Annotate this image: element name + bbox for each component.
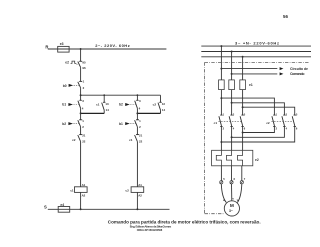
svg-text:c1: c1 bbox=[70, 188, 74, 192]
svg-text:Comando para partida direta de: Comando para partida direta de motor elé… bbox=[108, 219, 261, 224]
svg-text:v: v bbox=[232, 197, 234, 200]
svg-text:6: 6 bbox=[234, 177, 236, 181]
fuse e1 pole 3 bbox=[240, 80, 246, 90]
svg-text:c2: c2 bbox=[266, 121, 270, 125]
wire bbox=[80, 89, 82, 96]
svg-text:21: 21 bbox=[82, 134, 86, 138]
pushbutton b0 NC 1-2 bbox=[78, 81, 82, 88]
motor lead w bbox=[237, 184, 241, 203]
terminal 7 bbox=[240, 181, 243, 184]
node branch junction bbox=[80, 94, 82, 96]
svg-text:4: 4 bbox=[82, 107, 84, 111]
node control feed S bbox=[231, 73, 233, 75]
svg-text:14: 14 bbox=[162, 108, 166, 112]
node + wire branch to c2 pole 1 bbox=[220, 97, 222, 99]
svg-text:5: 5 bbox=[244, 112, 246, 116]
svg-text:1: 1 bbox=[223, 112, 225, 116]
svg-text:3: 3 bbox=[139, 99, 141, 103]
svg-text:3~ +N- 220V-60Hz: 3~ +N- 220V-60Hz bbox=[235, 40, 279, 45]
overload heater 3 bbox=[238, 150, 243, 166]
svg-text:96: 96 bbox=[82, 66, 86, 70]
fuse e1 pole 1 bbox=[219, 80, 225, 90]
node junction top bbox=[80, 48, 82, 50]
pushbutton b1 NO 3-4 bbox=[80, 95, 82, 100]
wire c1 outputs down to overload bbox=[220, 126, 222, 150]
svg-text:1: 1 bbox=[83, 79, 85, 83]
svg-text:1: 1 bbox=[276, 112, 278, 116]
coil c1 bbox=[75, 187, 88, 193]
svg-text:1: 1 bbox=[82, 119, 84, 123]
contact c2 NC 21-22 (interlock branch 1) bbox=[78, 135, 82, 187]
crossover wire c2 pole2 to phase S leg bbox=[231, 136, 233, 138]
panel boundary dash-dot frame bbox=[205, 62, 309, 213]
motor M1 bbox=[224, 201, 239, 216]
svg-text:22: 22 bbox=[139, 140, 143, 144]
pushbutton b2 NC 1-2 (branch 1) bbox=[78, 120, 82, 135]
node phase T tap bbox=[242, 56, 244, 58]
wire bottom control line bbox=[48, 208, 170, 210]
motor lead u bbox=[221, 184, 226, 203]
svg-text:2~- 220V- 60Hz: 2~- 220V- 60Hz bbox=[95, 43, 130, 48]
svg-text:b1: b1 bbox=[119, 122, 123, 126]
c1 linkage bbox=[218, 120, 241, 122]
svg-text:21: 21 bbox=[139, 134, 143, 138]
svg-text:4: 4 bbox=[233, 126, 235, 130]
node control feed R bbox=[220, 68, 222, 70]
svg-text:S: S bbox=[44, 205, 47, 210]
pushbutton b2 NO 3-4 (branch 2) bbox=[136, 95, 138, 100]
contact c1 13-14 (seal-in) bbox=[103, 95, 105, 102]
svg-text:Circuito de: Circuito de bbox=[290, 67, 308, 71]
node phase S tap bbox=[231, 51, 233, 53]
overload relay e2 box bbox=[212, 150, 253, 166]
svg-text:b1: b1 bbox=[62, 103, 66, 107]
wire control feed arrow 2 bbox=[232, 73, 278, 75]
svg-text:e3: e3 bbox=[60, 42, 64, 46]
svg-text:2: 2 bbox=[276, 126, 278, 130]
crossover wire c2 pole1 to phase T leg bbox=[242, 132, 244, 134]
node + wire branch to c2 pole 2 bbox=[231, 102, 233, 104]
node bbox=[103, 94, 105, 96]
terminal 6 bbox=[230, 181, 233, 184]
svg-text:4: 4 bbox=[286, 126, 288, 130]
wire phase R drop bbox=[220, 46, 222, 80]
svg-text:3: 3 bbox=[233, 112, 235, 116]
contactor c2 pole contacts bbox=[272, 115, 296, 126]
bus line S bbox=[201, 51, 311, 53]
svg-text:6: 6 bbox=[244, 126, 246, 130]
overload heater 1 bbox=[216, 150, 221, 166]
svg-text:c1: c1 bbox=[129, 138, 133, 142]
svg-text:13: 13 bbox=[105, 102, 109, 106]
svg-text:5: 5 bbox=[296, 112, 298, 116]
svg-text:6: 6 bbox=[296, 126, 298, 130]
svg-text:e2: e2 bbox=[65, 60, 69, 64]
fuse e4 bbox=[58, 207, 69, 213]
node phase R tap bbox=[220, 45, 222, 47]
svg-text:2: 2 bbox=[83, 86, 85, 90]
crossover wire c2 pole3 to phase R leg bbox=[220, 141, 222, 143]
overload heater 2 bbox=[227, 150, 232, 166]
svg-text:7: 7 bbox=[244, 177, 246, 181]
fuse e1 pole 2 bbox=[229, 80, 235, 90]
svg-text:e2: e2 bbox=[255, 158, 259, 162]
e2 trip symbol bbox=[71, 61, 77, 63]
contact c2 13-14 (seal-in branch 2) bbox=[160, 95, 162, 102]
bus line T bbox=[201, 56, 311, 58]
svg-text:A2: A2 bbox=[138, 194, 142, 198]
svg-text:14: 14 bbox=[106, 108, 110, 112]
svg-text:b2: b2 bbox=[119, 103, 123, 107]
svg-text:Comando: Comando bbox=[290, 72, 305, 76]
svg-text:b2: b2 bbox=[62, 122, 66, 126]
wire control feed arrow 1 bbox=[221, 68, 277, 70]
svg-text:4: 4 bbox=[139, 107, 141, 111]
svg-text:A2: A2 bbox=[82, 194, 86, 198]
node + wire branch to c2 pole 3 bbox=[242, 106, 244, 108]
svg-text:e4: e4 bbox=[60, 203, 64, 207]
wire main vertical upper bbox=[80, 49, 82, 61]
svg-text:2: 2 bbox=[82, 125, 84, 129]
wire bbox=[80, 113, 82, 119]
svg-text:c1: c1 bbox=[96, 103, 100, 107]
wire seal loop bottom left bbox=[81, 112, 105, 114]
svg-text:A1: A1 bbox=[82, 183, 86, 187]
svg-text:95: 95 bbox=[82, 60, 86, 64]
wire below fuses bbox=[220, 90, 222, 116]
relay contact e2 95-96 bbox=[78, 61, 82, 68]
svg-text:2: 2 bbox=[139, 125, 141, 129]
motor lead v bbox=[231, 184, 233, 201]
coil c2 bbox=[131, 187, 144, 193]
wire bbox=[80, 192, 82, 209]
wire bbox=[136, 192, 138, 209]
terminal 5 bbox=[220, 181, 223, 184]
wire bbox=[136, 113, 138, 119]
svg-text:1: 1 bbox=[139, 119, 141, 123]
node bbox=[137, 94, 139, 96]
svg-text:A1: A1 bbox=[138, 183, 142, 187]
wire seal loop bottom branch 2 bbox=[137, 112, 160, 114]
wire bbox=[80, 68, 82, 81]
wire top control line bbox=[48, 48, 167, 50]
svg-text:2: 2 bbox=[223, 126, 225, 130]
svg-text:c2: c2 bbox=[153, 103, 157, 107]
svg-text:13: 13 bbox=[162, 102, 166, 106]
contactor c1 pole contacts bbox=[219, 115, 244, 126]
svg-text:CREA-SP 0601234568: CREA-SP 0601234568 bbox=[137, 228, 163, 232]
svg-text:c1: c1 bbox=[214, 121, 218, 125]
wire phase T drop bbox=[242, 57, 244, 80]
pushbutton b1 NC 1-2 (branch 2) bbox=[135, 120, 139, 135]
svg-text:22: 22 bbox=[82, 140, 86, 144]
wire phase S drop bbox=[231, 52, 233, 80]
c2 linkage bbox=[271, 120, 293, 122]
svg-text:56: 56 bbox=[283, 14, 288, 19]
wire branch top horizontal bbox=[81, 94, 161, 96]
svg-text:5: 5 bbox=[223, 177, 225, 181]
bus line R bbox=[201, 45, 311, 47]
fuse e3 bbox=[58, 46, 69, 52]
contact c1 NC 21-22 (interlock branch 2) bbox=[135, 135, 139, 187]
svg-text:c2: c2 bbox=[72, 138, 76, 142]
svg-text:b0: b0 bbox=[63, 84, 67, 88]
svg-text:3~: 3~ bbox=[229, 209, 233, 213]
svg-text:3: 3 bbox=[286, 112, 288, 116]
svg-text:3: 3 bbox=[82, 99, 84, 103]
wire overload outputs bbox=[220, 166, 222, 181]
svg-text:e1: e1 bbox=[249, 83, 253, 87]
svg-text:c2: c2 bbox=[125, 188, 129, 192]
